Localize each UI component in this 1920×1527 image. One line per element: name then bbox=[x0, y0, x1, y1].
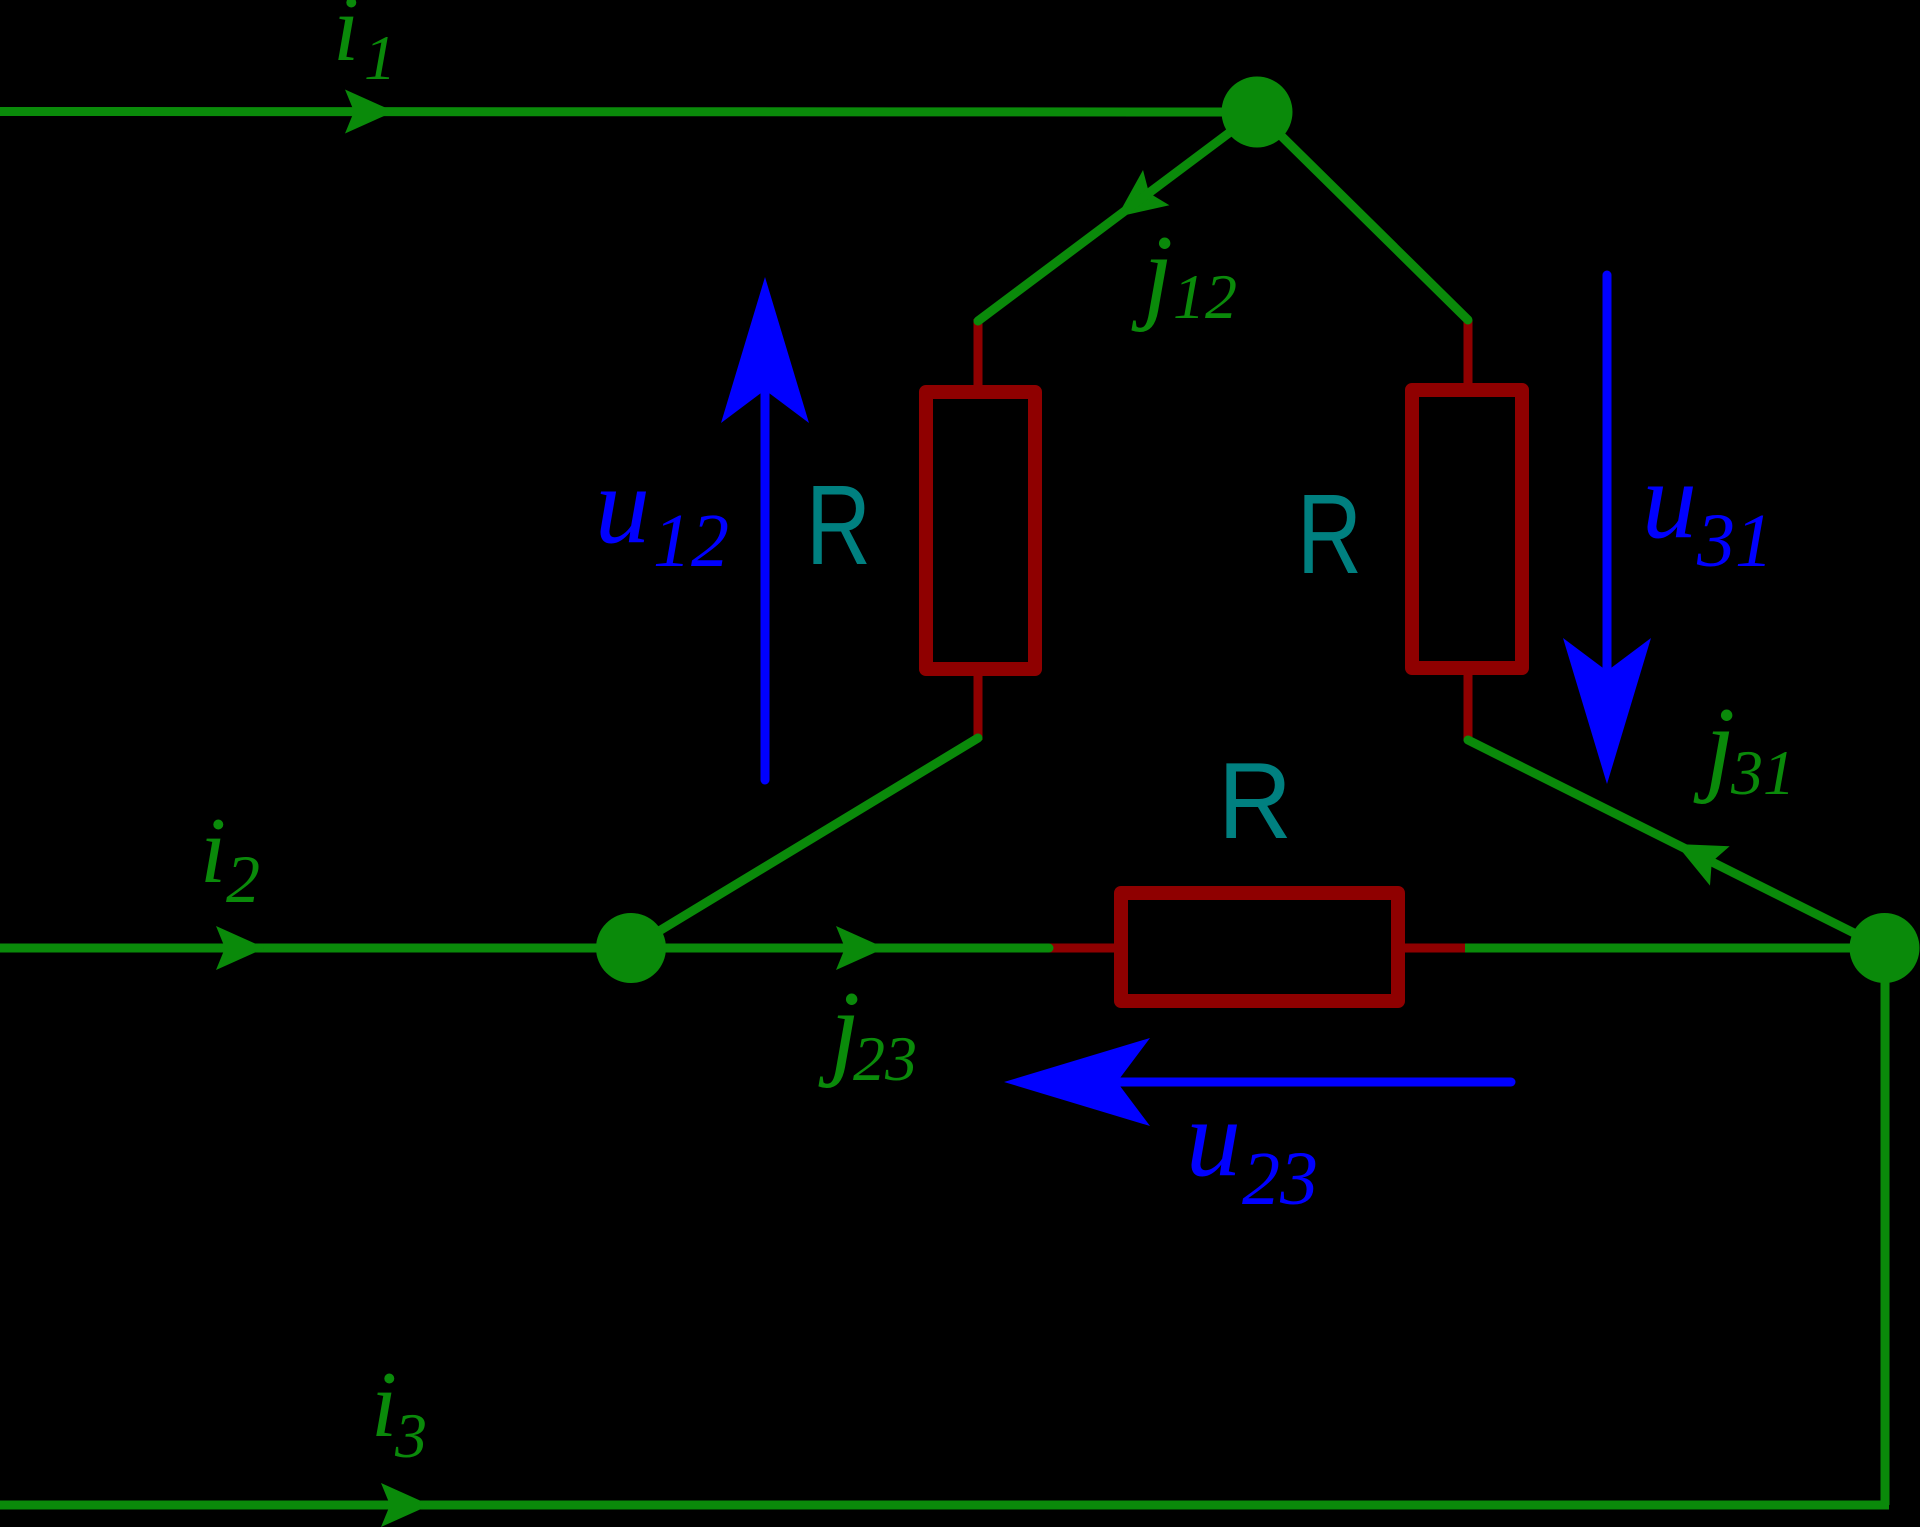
wire node3 to R31 (diagonal up-left) bbox=[1468, 740, 1884, 948]
wire node1 to R12 (diagonal down-left) bbox=[978, 112, 1257, 321]
wire node3 down vertical right side bbox=[1881, 948, 1890, 1505]
svg-text:i: i bbox=[200, 799, 226, 903]
resistor R31 (right vertical) bbox=[1412, 390, 1522, 668]
wire i3 bottom horizontal bbox=[0, 1501, 1889, 1510]
svg-text:u: u bbox=[595, 444, 650, 566]
wire node2 to R23 (horizontal) bbox=[631, 944, 1049, 953]
svg-text:31: 31 bbox=[1730, 737, 1795, 808]
wire red stub bottom of R31 bbox=[1464, 669, 1473, 741]
svg-text:R: R bbox=[806, 462, 871, 588]
svg-text:31: 31 bbox=[1696, 499, 1773, 583]
svg-text:u: u bbox=[1186, 1077, 1241, 1199]
resistor R12 (left vertical) bbox=[926, 392, 1035, 669]
node 1 (top) bbox=[1222, 77, 1293, 148]
svg-text:i: i bbox=[371, 1353, 397, 1457]
arrowhead j31 bbox=[1666, 824, 1730, 885]
wire red stub top of R12 bbox=[974, 319, 983, 392]
resistor R23 (horizontal) bbox=[1121, 893, 1398, 1001]
wire red stub bottom of R12 bbox=[974, 669, 983, 740]
arrow u31 (blue, down) bbox=[1603, 275, 1612, 671]
wire red stub left of R23 bbox=[1046, 944, 1120, 953]
wire R12 to node2 (diagonal down-left) bbox=[631, 738, 978, 948]
svg-text:R: R bbox=[1218, 740, 1292, 862]
wire node1 to R31 (diagonal down-right) bbox=[1257, 112, 1468, 320]
svg-text:23: 23 bbox=[1242, 1137, 1318, 1221]
svg-text:u: u bbox=[1642, 439, 1697, 561]
arrowhead i1 bbox=[345, 90, 394, 134]
wire i1 top horizontal bbox=[0, 107, 1257, 117]
arrowhead j12 bbox=[1104, 170, 1170, 235]
wire i2 left horizontal bbox=[0, 944, 631, 953]
wire red stub top of R31 bbox=[1464, 320, 1473, 390]
wire red stub right of R23 bbox=[1398, 944, 1465, 953]
arrow u23 (blue, left) bbox=[1117, 1078, 1511, 1087]
svg-text:R: R bbox=[1297, 471, 1362, 597]
arrowhead j23 bbox=[836, 926, 885, 970]
arrowhead i2 bbox=[216, 926, 265, 970]
node 2 (middle left) bbox=[596, 913, 666, 983]
arrowhead i3 bbox=[381, 1483, 430, 1527]
node 3 (right) bbox=[1850, 913, 1920, 983]
svg-text:12: 12 bbox=[1173, 261, 1237, 332]
svg-text:3: 3 bbox=[394, 1400, 427, 1471]
svg-text:12: 12 bbox=[653, 499, 729, 583]
svg-text:23: 23 bbox=[853, 1023, 917, 1094]
arrow u12 (blue, up) bbox=[761, 388, 770, 780]
svg-text:1: 1 bbox=[364, 22, 396, 93]
svg-text:2: 2 bbox=[226, 841, 260, 917]
wire R23 to node3 (horizontal) bbox=[1465, 944, 1884, 953]
svg-text:i: i bbox=[333, 0, 359, 81]
